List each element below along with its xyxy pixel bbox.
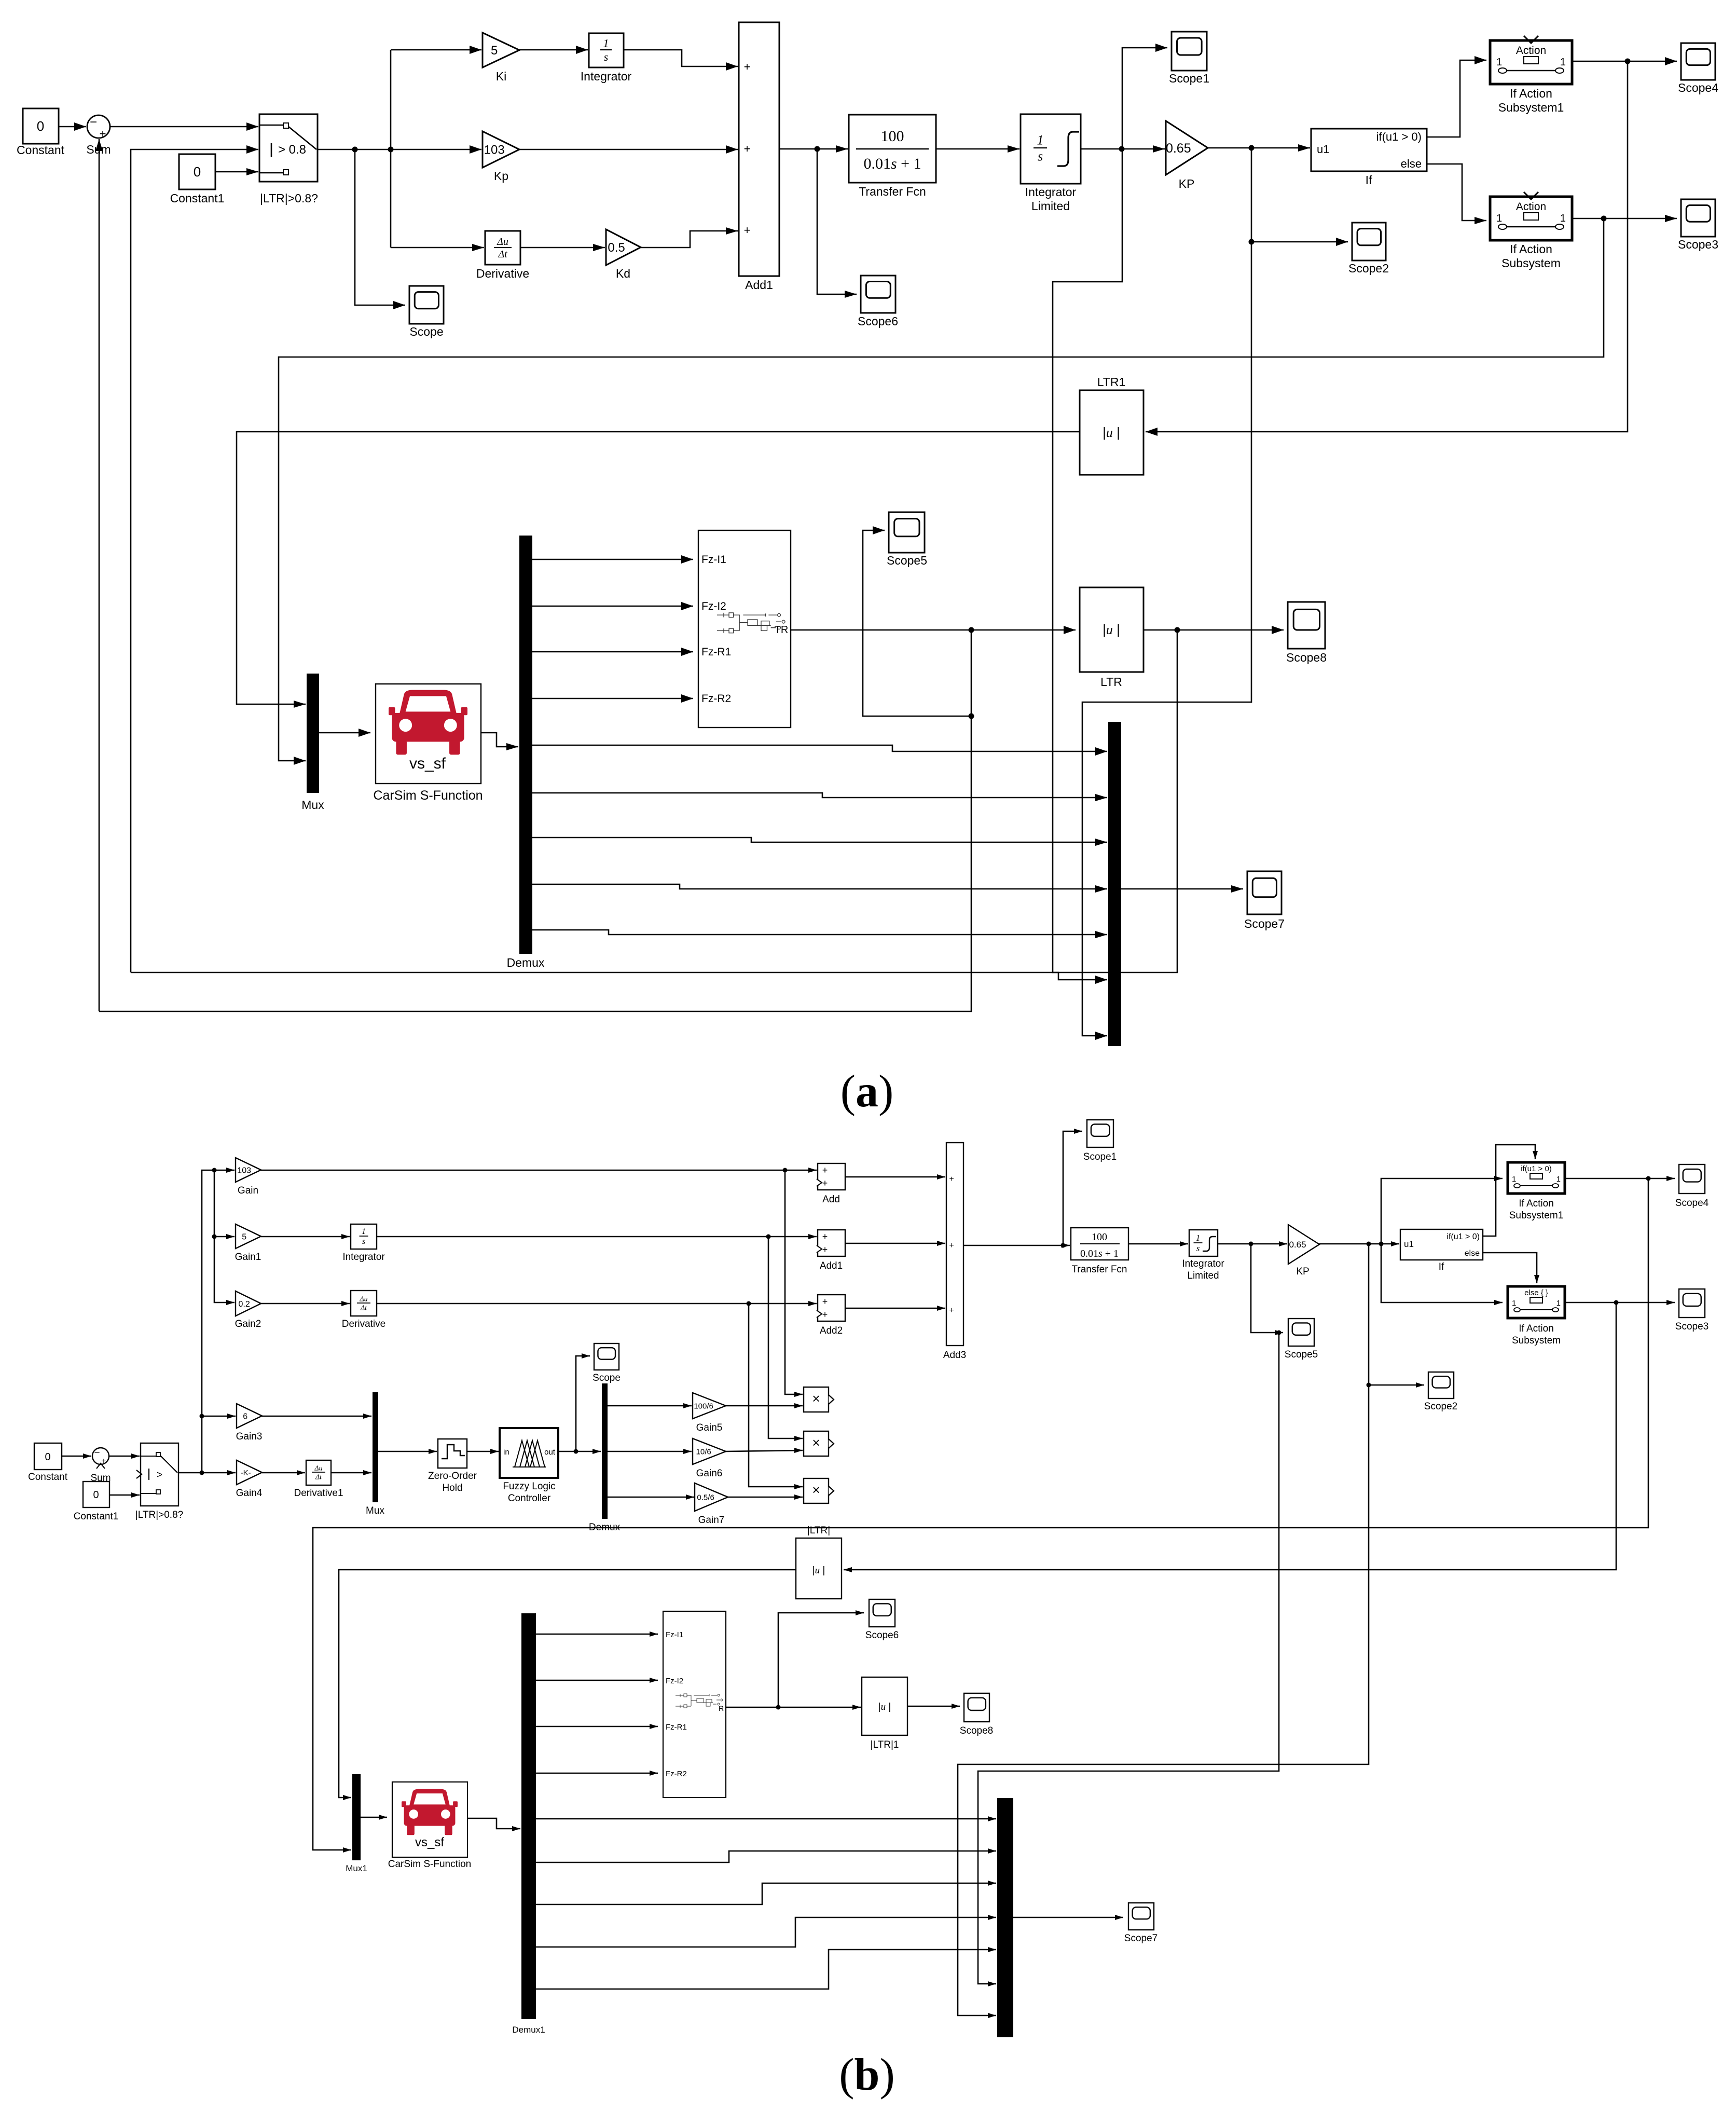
wire Demux out2 to Fz-I2 (a) xyxy=(532,602,693,610)
svg-text:Limited: Limited xyxy=(1187,1270,1219,1281)
svg-text:100: 100 xyxy=(881,128,904,145)
svg-text:+: + xyxy=(100,127,106,140)
svg-text:Scope6: Scope6 xyxy=(865,1630,899,1641)
svg-text:Subsystem1: Subsystem1 xyxy=(1498,101,1564,114)
svg-text:+: + xyxy=(744,224,751,237)
svg-text:0.5/6: 0.5/6 xyxy=(697,1493,714,1502)
svg-text:out: out xyxy=(544,1448,556,1457)
svg-text:If Action: If Action xyxy=(1519,1198,1554,1209)
svg-text:Fz-R1: Fz-R1 xyxy=(666,1723,687,1732)
svg-text:Scope6: Scope6 xyxy=(858,314,898,328)
wire Gain7 to product3 (b) xyxy=(728,1494,803,1500)
wire IL signal down (a) xyxy=(1053,149,1122,984)
block If (b) xyxy=(1400,1229,1483,1260)
label Demux1 (b) xyxy=(512,2025,545,2035)
wire down to Subsystem input (b) xyxy=(1381,1244,1503,1305)
junction Subsystem out (b) xyxy=(1614,1300,1619,1305)
demux Demux1 (b) xyxy=(521,1613,536,2019)
svg-text:Δu: Δu xyxy=(314,1465,322,1473)
svg-text:Scope: Scope xyxy=(409,325,443,338)
label CarSim S-Function (b) xyxy=(388,1859,472,1870)
svg-text:1: 1 xyxy=(1496,57,1502,68)
svg-text:Zero-Order: Zero-Order xyxy=(428,1471,477,1482)
label Mux1 (b) xyxy=(346,1863,367,1873)
label Gain (b) xyxy=(238,1185,258,1196)
gain Gain5 100/6 (b) xyxy=(693,1393,726,1419)
svg-text:Δt: Δt xyxy=(360,1304,367,1312)
svg-text:Kd: Kd xyxy=(616,267,630,280)
wire to Derivative (a) xyxy=(391,244,484,251)
svg-text:−: − xyxy=(90,115,97,129)
svg-text:1: 1 xyxy=(1512,1175,1516,1184)
label switch (a) xyxy=(260,191,318,205)
wire Demux out1 to Fz-I1 (a) xyxy=(532,555,693,564)
label Derivative (b) xyxy=(342,1319,385,1329)
wire Demux1 out9 to Mux2 in5 (b) xyxy=(536,1947,996,1989)
svg-text:Δu: Δu xyxy=(497,236,508,248)
svg-text:Δt: Δt xyxy=(315,1473,322,1481)
wire Kp to Add1 (a) xyxy=(519,145,738,154)
wire to Scope6 (a) xyxy=(817,149,857,298)
wire KP branch to Scope2 and down (a) xyxy=(1082,148,1251,1040)
wire vs_sf to Demux (a) xyxy=(481,733,518,750)
junction Gain1 branch (b) xyxy=(212,1235,217,1239)
label Kp (a) xyxy=(494,169,508,183)
label Mux (b) xyxy=(366,1505,384,1516)
block vs_sf CarSim S-Function (a) xyxy=(376,684,481,784)
block Derivative (a) xyxy=(485,231,520,265)
svg-text:5: 5 xyxy=(242,1232,246,1241)
svg-text:Scope1: Scope1 xyxy=(1169,72,1209,85)
svg-text:Constant: Constant xyxy=(17,143,65,157)
wire TF to Integrator Limited (b) xyxy=(1128,1241,1188,1246)
label KP (b) xyxy=(1296,1266,1309,1277)
label Integrator (b) xyxy=(342,1252,385,1263)
wire Switch output (a) xyxy=(318,149,391,150)
svg-text:Scope8: Scope8 xyxy=(1286,651,1327,664)
svg-text:Hold: Hold xyxy=(442,1483,462,1493)
junction row1 to product1 (b) xyxy=(783,1168,788,1173)
wire Demux1 out5 to Mux2 in1 (b) xyxy=(536,1816,996,1821)
label |LTR| (b) xyxy=(807,1525,830,1536)
svg-text:> 0.8: > 0.8 xyxy=(278,143,306,157)
wire Sum to Switch (b) xyxy=(109,1453,140,1459)
svg-text:Integrator: Integrator xyxy=(342,1252,385,1263)
svg-text:1: 1 xyxy=(1037,133,1044,148)
label CarSim S-Function (a) xyxy=(373,788,483,803)
svg-text:Scope2: Scope2 xyxy=(1424,1401,1457,1412)
svg-text:0.01s + 1: 0.01s + 1 xyxy=(863,155,921,172)
label |LTR|1 (b) xyxy=(871,1739,899,1750)
wire TF to Integrator Limited (a) xyxy=(936,145,1019,153)
svg-text:in: in xyxy=(503,1448,509,1457)
wire Add3 to Transfer Fcn (b) xyxy=(963,1243,1070,1248)
label Integrator Limited (a) xyxy=(1025,185,1077,213)
svg-text:Add3: Add3 xyxy=(943,1350,966,1361)
label If Action Subsystem1 (b) xyxy=(1509,1198,1564,1221)
svg-text:0.5: 0.5 xyxy=(608,241,625,255)
wire LTR to Scope8 (a) xyxy=(1143,626,1284,634)
svg-text:Fz-R2: Fz-R2 xyxy=(666,1770,687,1778)
wire Demux1 out8 to Mux2 in4 (b) xyxy=(536,1915,996,1947)
scope Scope (a) xyxy=(409,286,444,324)
svg-text:Subsystem: Subsystem xyxy=(1512,1335,1561,1346)
mux Mux2 (b) xyxy=(997,1798,1013,2037)
label Kd (a) xyxy=(616,267,630,280)
svg-text:1: 1 xyxy=(1556,1175,1561,1184)
svg-text:Fz-I2: Fz-I2 xyxy=(666,1677,683,1685)
wire Constant to Sum (a) xyxy=(59,122,86,131)
svg-text:Scope: Scope xyxy=(593,1373,621,1383)
block Fuzzy Logic Controller (b) xyxy=(500,1428,558,1478)
svg-text:Fz-I2: Fz-I2 xyxy=(701,600,726,612)
gain Kp (a) xyxy=(483,131,519,168)
junction to Scope6 (a) xyxy=(815,146,820,152)
svg-text:Scope3: Scope3 xyxy=(1675,1321,1709,1332)
scope Scope2 (b) xyxy=(1428,1372,1454,1398)
junction row3 to product3 (b) xyxy=(747,1301,751,1306)
product block 2 (b) xyxy=(804,1431,834,1456)
wire Subsystem1 feedback to Mux1 in2 (b) xyxy=(313,1178,1648,1853)
label Gain4 (b) xyxy=(236,1488,263,1499)
wire Switch out to Gain4 row (b) xyxy=(178,1470,236,1475)
label Transfer Fcn (a) xyxy=(859,185,926,198)
block Constant1 (b) xyxy=(83,1482,109,1507)
block Constant1 (a) xyxy=(179,154,215,189)
wire Gain(103) to Add (b) xyxy=(261,1168,817,1173)
wire Subsystem to Scope3 (b) xyxy=(1565,1300,1675,1305)
svg-text:Gain5: Gain5 xyxy=(696,1422,723,1433)
block |LTR|1 (b) xyxy=(862,1677,907,1735)
svg-text:Constant: Constant xyxy=(28,1472,68,1483)
label Constant (a) xyxy=(17,143,65,157)
label switch (b) xyxy=(135,1510,183,1520)
wire Add2 to Add3 (b) xyxy=(845,1306,945,1311)
add block Add1 (b) xyxy=(817,1230,845,1256)
svg-text:Action: Action xyxy=(1516,45,1546,57)
svg-text:|LTR|: |LTR| xyxy=(807,1525,830,1536)
wire up to Scope (b) xyxy=(576,1353,590,1451)
svg-text:|u |: |u | xyxy=(1103,424,1120,440)
label Scope4 (a) xyxy=(1678,81,1718,94)
gain Gain 103 (b) xyxy=(236,1158,261,1182)
wire Fz out to |LTR|1 (b) xyxy=(726,1705,861,1710)
svg-text:Δu: Δu xyxy=(359,1296,367,1304)
add block Add3 (b) xyxy=(946,1143,963,1346)
wire Mux2 to Scope7 (b) xyxy=(1013,1915,1123,1920)
block Transfer Fcn (b) xyxy=(1071,1228,1128,1260)
label Scope2 (b) xyxy=(1424,1401,1457,1412)
svg-text:103: 103 xyxy=(484,143,505,157)
label Demux (a) xyxy=(507,956,545,969)
label Constant1 (a) xyxy=(170,191,225,205)
block LTR (a) xyxy=(1080,587,1143,672)
svg-text:Scope7: Scope7 xyxy=(1244,917,1285,930)
svg-text:+: + xyxy=(949,1175,954,1184)
label Derivative (a) xyxy=(476,267,529,280)
wire junction up to Scope1 (a) xyxy=(1122,44,1167,149)
scope Scope8 (a) xyxy=(1288,602,1325,649)
switch block |LTR|>0.8? (a) xyxy=(259,114,318,182)
wire Sum to Switch (a) xyxy=(110,122,258,131)
wire Derivative to Add2 (b) xyxy=(377,1301,817,1306)
svg-text:×: × xyxy=(812,1482,820,1498)
wire Demux1 out2 to Fz-I2 (b) xyxy=(536,1678,658,1683)
junction to Scope (b) xyxy=(574,1449,578,1454)
wire to Scope2 (b) xyxy=(1369,1382,1424,1388)
junction IL out (b) xyxy=(1249,1242,1253,1246)
subsystem If Action Subsystem (a) xyxy=(1490,192,1572,240)
wire Demux1 out6 to Mux2 in2 (b) xyxy=(536,1848,996,1862)
add block Add (b) xyxy=(817,1163,845,1190)
subsystem Fz block (b) xyxy=(663,1611,726,1798)
wire Demux out4 to Fz-R2 (a) xyxy=(532,694,693,703)
block |LTR| (b) xyxy=(796,1538,842,1599)
label Fuzzy Logic Controller (b) xyxy=(503,1481,555,1504)
wire up to Scope1 (b) xyxy=(1063,1129,1082,1245)
wire feedback to Switch control (a) xyxy=(131,145,258,972)
label Scope (b) xyxy=(593,1373,621,1383)
svg-text:1: 1 xyxy=(1556,1299,1561,1308)
svg-text:else { }: else { } xyxy=(1524,1288,1548,1297)
scope Scope3 (a) xyxy=(1681,199,1715,237)
label Add1 (b) xyxy=(820,1260,843,1271)
wire to Gain3 (b) xyxy=(202,1414,236,1419)
label Scope7 (b) xyxy=(1124,1933,1158,1944)
svg-text:1: 1 xyxy=(1512,1299,1516,1308)
svg-text:If: If xyxy=(1439,1261,1444,1272)
svg-text:Fz-I1: Fz-I1 xyxy=(701,554,726,566)
label If Action Subsystem1 (a) xyxy=(1498,87,1564,114)
label Derivative1 (b) xyxy=(294,1488,343,1499)
junction row2 to product2 (b) xyxy=(766,1235,771,1239)
gain Gain6 10/6 (b) xyxy=(693,1438,726,1464)
label Add (b) xyxy=(822,1194,840,1205)
junction LTR out to Scope8 (a) xyxy=(1175,627,1180,633)
block Derivative1 (b) xyxy=(306,1460,331,1485)
wire Integrator to Add1 (a) xyxy=(624,50,738,71)
switch block |LTR|>0.8? (b) xyxy=(136,1443,178,1506)
svg-text:Scope1: Scope1 xyxy=(1083,1151,1117,1162)
svg-text:else: else xyxy=(1401,157,1422,170)
wire distribution vertical x389 (b) xyxy=(202,1168,235,1473)
wire row3 down to product3 (b) xyxy=(749,1304,803,1489)
svg-text:Add2: Add2 xyxy=(820,1325,843,1336)
wire Demux out7 to Mux2 in3 (a) xyxy=(532,838,1107,846)
svg-text:Add1: Add1 xyxy=(745,278,773,292)
wire Demux out9 to Mux2 in5 (a) xyxy=(532,930,1107,938)
svg-text:if(u1 > 0): if(u1 > 0) xyxy=(1446,1232,1480,1241)
svg-text:|LTR|>0.8?: |LTR|>0.8? xyxy=(260,191,318,205)
svg-text:|LTR|1: |LTR|1 xyxy=(871,1739,899,1750)
wire to Kp (a) xyxy=(391,145,481,154)
wire Add1 to Transfer Fcn (a) xyxy=(779,145,848,153)
svg-text:CarSim S-Function: CarSim S-Function xyxy=(388,1859,472,1870)
scope Scope4 (b) xyxy=(1679,1164,1705,1194)
junction Switch-out to Scope (a) xyxy=(352,147,358,153)
svg-text:(b): (b) xyxy=(839,2050,895,2100)
scope Scope4 (a) xyxy=(1681,43,1715,80)
label If Action Subsystem (b) xyxy=(1512,1323,1561,1346)
gain Gain1 5 (b) xyxy=(236,1224,261,1249)
label Scope6 (b) xyxy=(865,1630,899,1641)
svg-text:×: × xyxy=(812,1391,820,1406)
gain Gain4 -K- (b) xyxy=(237,1460,262,1485)
label Add1 (a) xyxy=(745,278,773,292)
wire If else out (b) xyxy=(1483,1253,1539,1283)
gain KP 0.65 (b) xyxy=(1288,1225,1319,1264)
label Gain2 (b) xyxy=(235,1319,261,1329)
label Scope7 (a) xyxy=(1244,917,1285,930)
svg-text:+: + xyxy=(822,1296,828,1307)
svg-text:1: 1 xyxy=(603,37,609,50)
svg-text:Gain3: Gain3 xyxy=(236,1431,263,1442)
wire ZOH to Fuzzy (b) xyxy=(467,1449,499,1454)
svg-text:Mux: Mux xyxy=(301,798,324,812)
block LTR1 (a) xyxy=(1080,390,1143,475)
svg-text:if(u1 > 0): if(u1 > 0) xyxy=(1521,1164,1552,1173)
sum block Sum (a) xyxy=(87,115,110,140)
scope Scope8 (b) xyxy=(964,1693,989,1722)
wire Demux out3 to Fz-R1 (a) xyxy=(532,648,693,656)
svg-text:Subsystem: Subsystem xyxy=(1501,256,1561,270)
junction to Scope2 (a) xyxy=(1249,239,1255,245)
svg-text:Demux1: Demux1 xyxy=(512,2025,545,2035)
label Gain6 (b) xyxy=(696,1468,723,1479)
junction subsystem feed (b) xyxy=(1379,1242,1384,1246)
junction KP output (a) xyxy=(1249,145,1255,151)
svg-text:Demux: Demux xyxy=(507,956,545,969)
svg-text:Fz-R1: Fz-R1 xyxy=(701,646,731,658)
label LTR (a) xyxy=(1100,675,1122,689)
wire feedback into Sum bottom (a) xyxy=(95,139,103,1011)
label Scope8 (b) xyxy=(960,1725,993,1736)
svg-text:Gain4: Gain4 xyxy=(236,1488,263,1499)
svg-text:LTR1: LTR1 xyxy=(1097,375,1126,389)
svg-text:+: + xyxy=(822,1231,828,1242)
svg-text:Fz-I1: Fz-I1 xyxy=(666,1630,683,1639)
scope Scope1 (b) xyxy=(1087,1120,1113,1147)
wire Subsystem1 to Scope4 (b) xyxy=(1565,1176,1675,1181)
label Scope5 (a) xyxy=(887,554,927,567)
wire Gain5 to product1 (b) xyxy=(726,1403,803,1408)
svg-text:Transfer Fcn: Transfer Fcn xyxy=(859,185,926,198)
wire Demux1 out4 to Fz-R2 (b) xyxy=(536,1771,658,1776)
svg-text:5: 5 xyxy=(491,44,498,58)
svg-text:>: > xyxy=(157,1470,162,1480)
wire vs_sf to Demux1 (b) xyxy=(467,1818,520,1831)
scope Scope7 (b) xyxy=(1128,1903,1154,1930)
svg-text:CarSim S-Function: CarSim S-Function xyxy=(373,788,483,803)
wire Derivative1 to Mux (b) xyxy=(331,1470,371,1475)
svg-text:s: s xyxy=(604,50,609,63)
wire |LTR| out to Mux1 in1 (b) xyxy=(339,1570,796,1800)
junction switch-out (b) xyxy=(200,1471,204,1475)
label Zero-Order Hold (b) xyxy=(428,1471,477,1493)
svg-text:If Action: If Action xyxy=(1510,87,1552,100)
svg-text:vs_sf: vs_sf xyxy=(415,1835,444,1849)
scope Scope6 (a) xyxy=(861,276,895,313)
subsystem Fz block (a) xyxy=(698,530,791,728)
mux Mux1 (b) xyxy=(352,1774,361,1860)
subsystem If Action Subsystem1 (a) xyxy=(1490,36,1572,84)
label If (a) xyxy=(1366,173,1372,187)
label If (b) xyxy=(1439,1261,1444,1272)
wire |LTR|1 to Scope8 (b) xyxy=(907,1704,960,1709)
scope Scope6 (b) xyxy=(869,1599,895,1627)
mux Mux (a) xyxy=(307,674,319,793)
wire KP to If (b) xyxy=(1319,1241,1399,1246)
svg-text:Scope3: Scope3 xyxy=(1678,238,1718,251)
demux Demux (b) xyxy=(602,1383,608,1519)
block Integrator (b) xyxy=(351,1224,377,1249)
svg-text:0.65: 0.65 xyxy=(1166,141,1191,156)
scope Scope5 (a) xyxy=(889,512,925,553)
wire Mux2 to Scope7 (a) xyxy=(1121,885,1243,893)
subsystem If Action Subsystem1 (b) xyxy=(1508,1162,1565,1194)
block Transfer Fcn (a) xyxy=(849,115,936,183)
gain Gain3 6 (b) xyxy=(237,1404,262,1428)
svg-text:Gain6: Gain6 xyxy=(696,1468,723,1479)
block Integrator Limited (b) xyxy=(1189,1230,1218,1256)
wire Subsystem to Scope3 (a) xyxy=(1572,215,1677,222)
block Constant (b) xyxy=(34,1443,62,1470)
svg-text:1: 1 xyxy=(1560,57,1566,68)
wire Gain6 to product2 (b) xyxy=(726,1448,803,1453)
label Ki (a) xyxy=(496,70,506,83)
svg-text:Gain2: Gain2 xyxy=(235,1319,261,1329)
svg-text:+: + xyxy=(949,1241,954,1250)
gain KP (a) xyxy=(1166,121,1208,175)
svg-text:Scope7: Scope7 xyxy=(1124,1933,1158,1944)
svg-text:|u |: |u | xyxy=(812,1565,825,1576)
wire Demux1 out3 to Fz-R1 (b) xyxy=(536,1724,658,1729)
svg-text:Gain1: Gain1 xyxy=(235,1252,261,1263)
svg-text:R: R xyxy=(719,1704,724,1712)
wire Gain3 to Mux (b) xyxy=(262,1414,371,1419)
subsystem If Action Subsystem (b) xyxy=(1508,1286,1565,1318)
product block 1 (b) xyxy=(804,1387,834,1412)
wire branch vertical (a) xyxy=(390,50,392,248)
wire If action out loop (b) xyxy=(1483,1145,1538,1236)
wire Constant1 to Switch (b) xyxy=(109,1492,140,1498)
label Scope8 (a) xyxy=(1286,651,1327,664)
wire Gain1 to Integrator (b) xyxy=(261,1234,350,1239)
svg-text:u1: u1 xyxy=(1404,1239,1414,1249)
svg-text:|u |: |u | xyxy=(1103,622,1120,637)
junction Scope2 branch (b) xyxy=(1367,1383,1371,1388)
wire Gain4 to Derivative1 (b) xyxy=(262,1470,305,1475)
block Zero-Order Hold (b) xyxy=(438,1439,467,1468)
label Constant1 (b) xyxy=(74,1511,119,1522)
block Integrator Limited (a) xyxy=(1021,114,1081,184)
wire Ki to Integrator (a) xyxy=(519,46,588,54)
junction Scope5 branch (a) xyxy=(969,714,974,719)
wire to Ki (a) xyxy=(391,46,481,54)
svg-text:Scope4: Scope4 xyxy=(1678,81,1718,94)
svg-text:Add: Add xyxy=(822,1194,840,1205)
label Integrator Limited (b) xyxy=(1182,1258,1224,1281)
block Constant (a) xyxy=(23,108,59,144)
svg-text:Fz-R2: Fz-R2 xyxy=(701,693,731,705)
wire Add1 to Add3 (b) xyxy=(845,1241,945,1246)
svg-text:Scope4: Scope4 xyxy=(1675,1198,1709,1209)
wire Demux to Gain6 (b) xyxy=(608,1449,692,1454)
svg-text:Mux: Mux xyxy=(366,1505,384,1516)
block Integrator (a) xyxy=(589,33,624,67)
scope Scope (b) xyxy=(594,1343,619,1370)
label Add3 (b) xyxy=(943,1350,966,1361)
